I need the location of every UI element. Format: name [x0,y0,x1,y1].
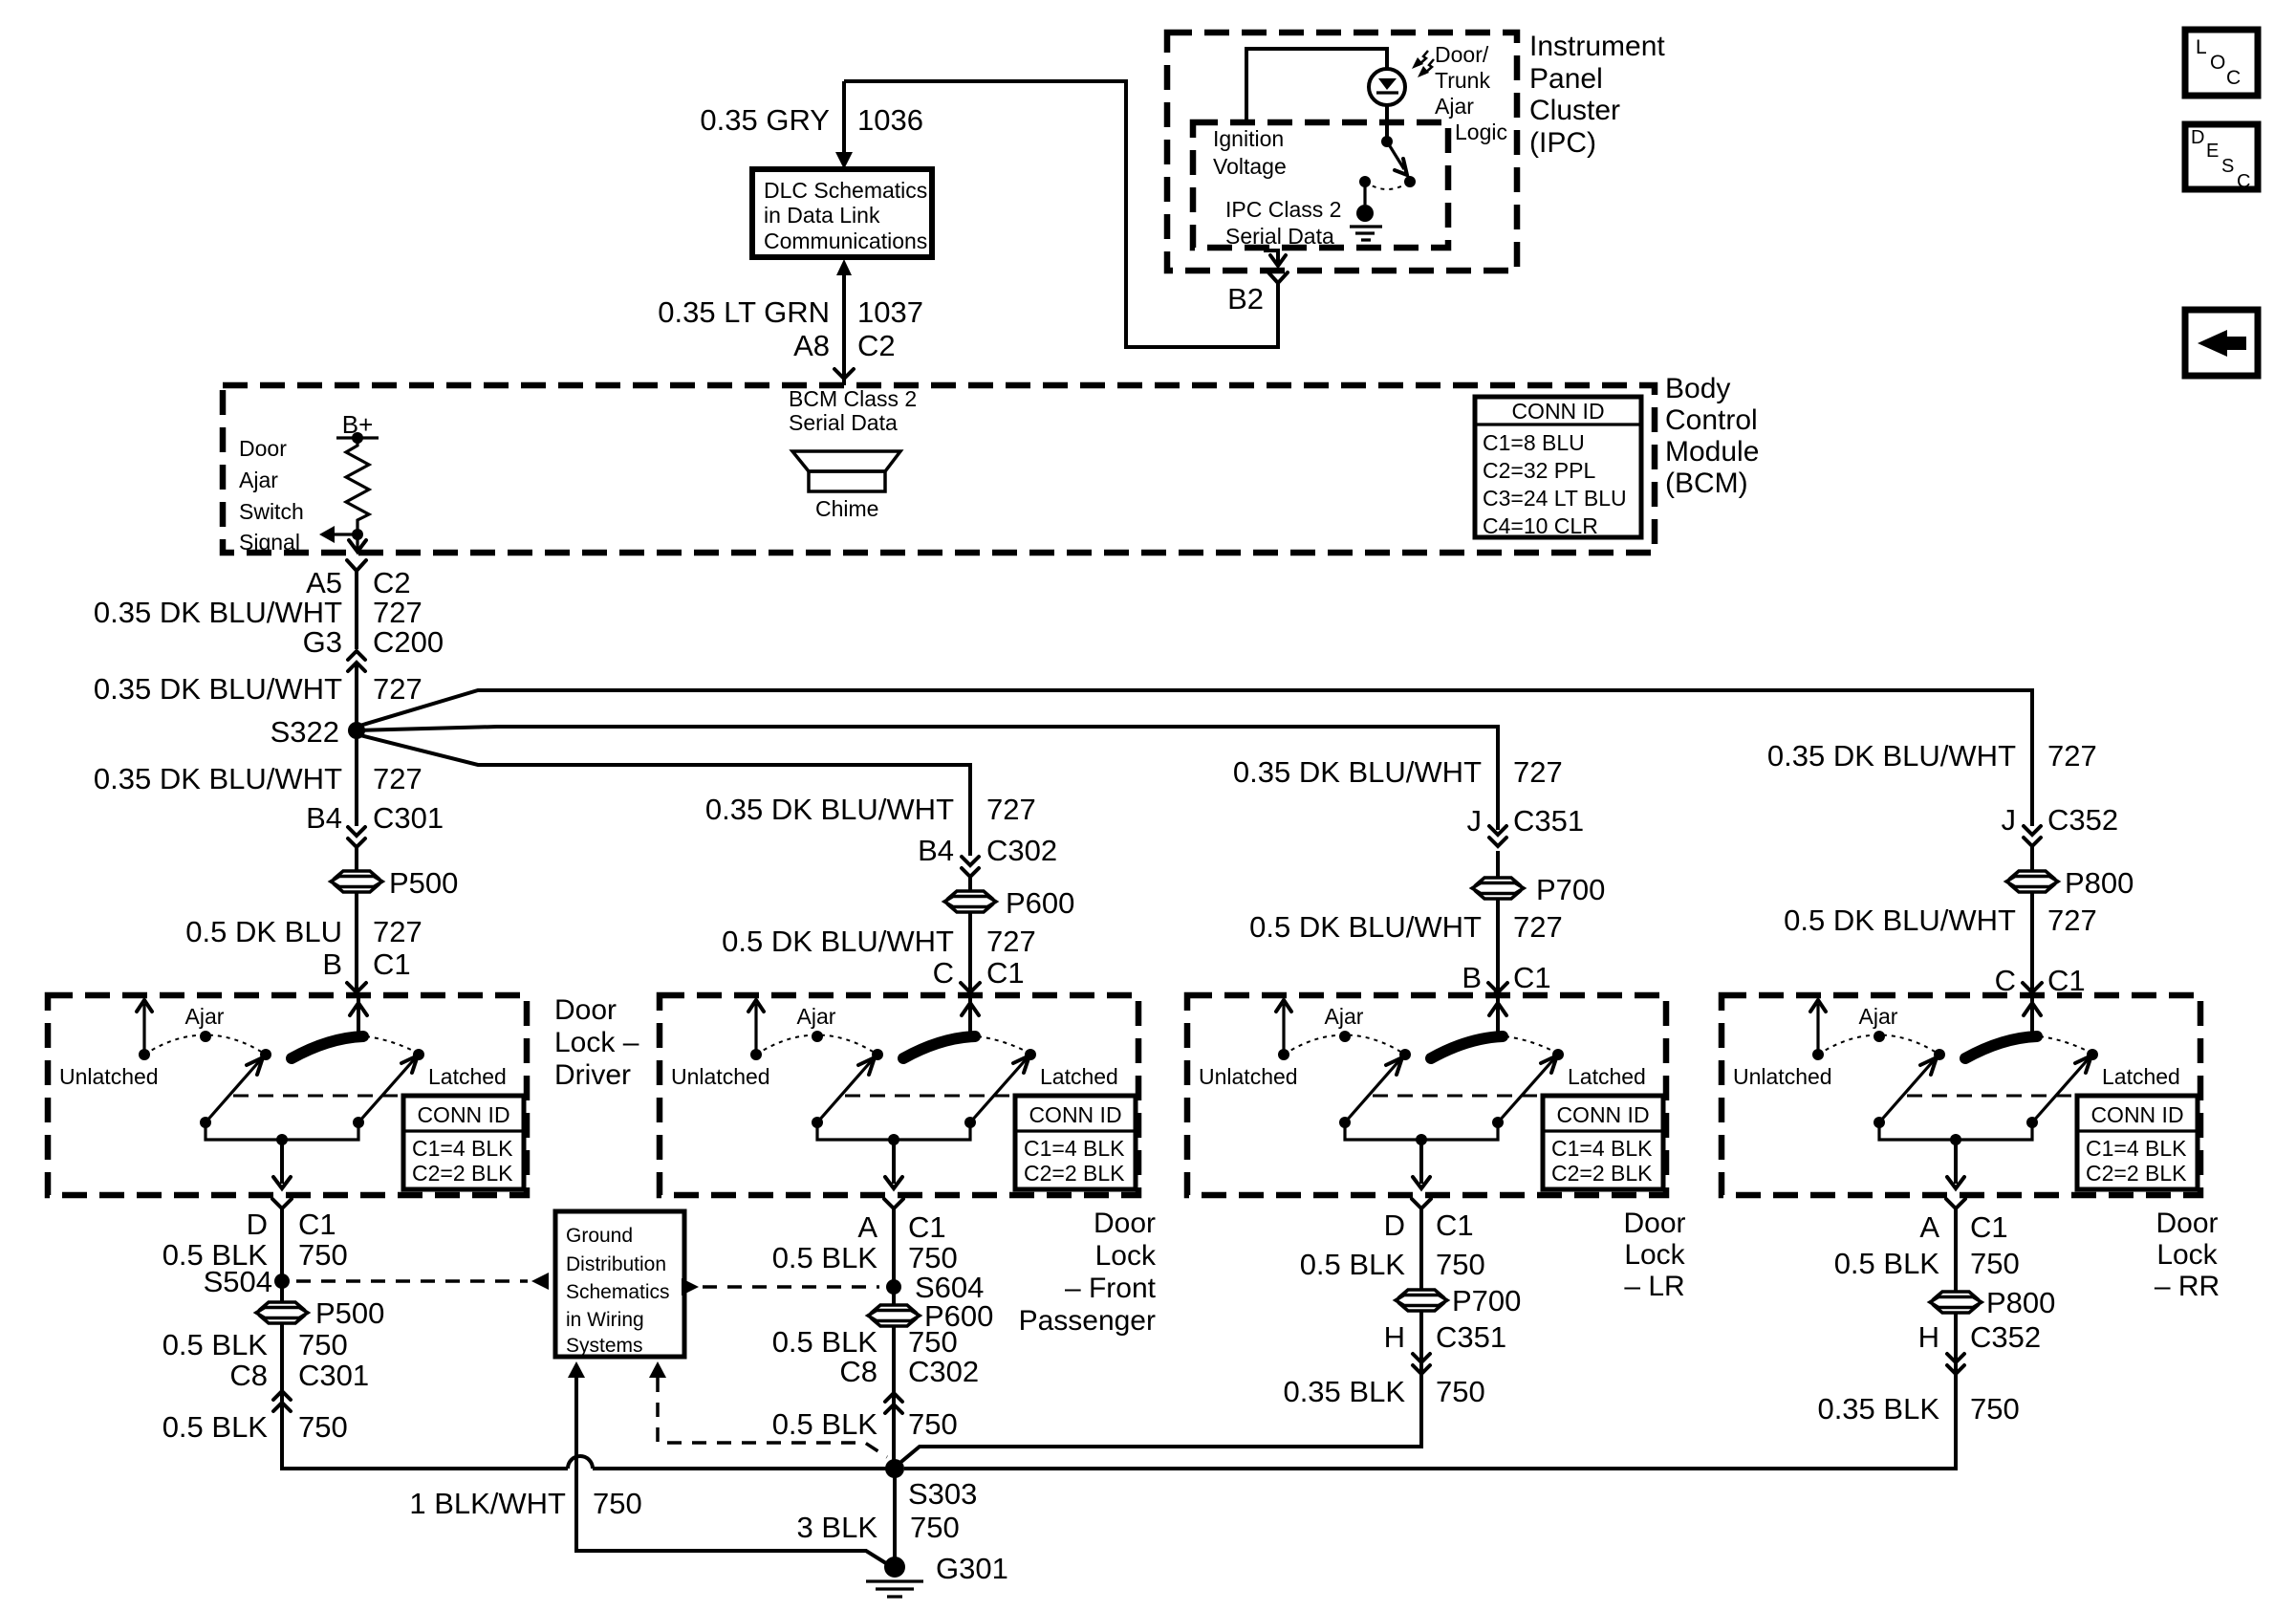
svg-text:1 BLK/WHT: 1 BLK/WHT [409,1487,566,1520]
svg-text:0.35 DK BLU/WHT: 0.35 DK BLU/WHT [705,793,954,826]
svg-text:P700: P700 [1452,1284,1521,1317]
svg-text:750: 750 [910,1511,960,1544]
svg-text:0.35 DK BLU/WHT: 0.35 DK BLU/WHT [94,672,342,706]
svg-text:C2: C2 [857,329,896,362]
svg-text:Body: Body [1665,373,1730,404]
svg-text:Door/: Door/ [1435,42,1489,67]
svg-text:S: S [2221,156,2234,177]
svg-text:750: 750 [298,1238,348,1272]
svg-text:P500: P500 [315,1296,384,1330]
svg-text:C1: C1 [908,1210,946,1244]
svg-text:C1: C1 [298,1208,336,1241]
svg-text:Communications: Communications [764,229,927,253]
svg-text:3 BLK: 3 BLK [797,1511,878,1544]
svg-text:Lock: Lock [1095,1240,1157,1272]
svg-text:C351: C351 [1513,804,1584,838]
svg-text:0.35 DK BLU/WHT: 0.35 DK BLU/WHT [1233,755,1482,789]
svg-text:0.5 BLK: 0.5 BLK [162,1328,269,1361]
svg-text:B4: B4 [306,801,342,835]
svg-text:Voltage: Voltage [1213,154,1287,179]
svg-text:H: H [1384,1320,1405,1354]
svg-text:S303: S303 [908,1477,977,1511]
svg-text:Signal: Signal [239,530,300,555]
svg-text:1036: 1036 [857,103,923,137]
svg-text:Serial Data: Serial Data [789,410,898,435]
svg-text:D: D [1384,1208,1405,1242]
svg-text:750: 750 [908,1325,958,1359]
svg-text:P800: P800 [1986,1286,2055,1319]
svg-text:0.35 BLK: 0.35 BLK [1817,1392,1939,1426]
svg-text:P700: P700 [1536,873,1605,906]
svg-text:727: 727 [1513,910,1563,944]
svg-text:C3=24 LT BLU: C3=24 LT BLU [1483,486,1627,511]
svg-text:C301: C301 [373,801,444,835]
svg-text:750: 750 [298,1328,348,1361]
svg-text:L: L [2196,36,2207,58]
svg-text:0.35 BLK: 0.35 BLK [1283,1375,1405,1408]
svg-text:Control: Control [1665,404,1758,436]
svg-text:A8: A8 [793,329,830,362]
svg-text:Instrument: Instrument [1529,31,1665,62]
svg-text:0.35 DK BLU/WHT: 0.35 DK BLU/WHT [94,596,342,629]
svg-text:C301: C301 [298,1359,369,1392]
svg-text:1037: 1037 [857,295,923,329]
svg-text:750: 750 [1970,1247,2020,1280]
svg-text:J: J [2002,803,2017,837]
svg-text:Door: Door [554,994,617,1026]
svg-text:CONN ID: CONN ID [1511,399,1604,424]
svg-text:C1: C1 [1513,961,1551,994]
svg-text:H: H [1918,1320,1939,1354]
svg-text:Switch: Switch [239,499,304,524]
svg-text:P600: P600 [1006,886,1074,920]
svg-text:– LR: – LR [1624,1271,1684,1302]
svg-text:O: O [2210,52,2225,74]
svg-text:Ajar: Ajar [1435,94,1474,119]
svg-text:0.35 DK BLU/WHT: 0.35 DK BLU/WHT [1767,739,2016,773]
svg-text:G301: G301 [936,1552,1008,1585]
svg-text:C2: C2 [373,566,411,599]
svg-text:(BCM): (BCM) [1665,468,1748,499]
svg-text:Logic: Logic [1455,120,1507,144]
svg-text:0.35 DK BLU/WHT: 0.35 DK BLU/WHT [94,762,342,795]
svg-text:727: 727 [373,596,422,629]
svg-text:Chime: Chime [815,496,878,521]
svg-text:0.5 DK BLU/WHT: 0.5 DK BLU/WHT [1784,903,2016,937]
svg-text:C4=10 CLR: C4=10 CLR [1483,513,1598,538]
svg-text:0.5 BLK: 0.5 BLK [772,1325,878,1359]
svg-text:750: 750 [1436,1248,1485,1281]
svg-text:727: 727 [986,925,1036,958]
svg-text:in Data Link: in Data Link [764,203,880,228]
svg-text:Serial Data: Serial Data [1225,224,1334,249]
svg-text:D: D [247,1208,268,1241]
svg-text:C351: C351 [1436,1320,1506,1354]
svg-text:Ground: Ground [566,1225,633,1247]
svg-text:Door: Door [1623,1208,1685,1239]
svg-text:0.5 BLK: 0.5 BLK [1300,1248,1406,1281]
svg-text:IPC Class 2: IPC Class 2 [1225,197,1341,222]
svg-text:Cluster: Cluster [1529,95,1620,126]
svg-text:C302: C302 [986,834,1057,867]
svg-text:C352: C352 [2047,803,2118,837]
svg-text:C8: C8 [839,1355,877,1388]
svg-text:Lock: Lock [1624,1239,1685,1271]
svg-text:Door: Door [239,436,287,461]
svg-text:C1: C1 [986,956,1025,990]
svg-text:0.5 DK BLU/WHT: 0.5 DK BLU/WHT [722,925,954,958]
svg-text:Lock: Lock [2156,1239,2218,1271]
svg-text:C2=32 PPL: C2=32 PPL [1483,458,1595,483]
svg-text:750: 750 [908,1407,958,1441]
svg-text:Panel: Panel [1529,63,1603,95]
svg-text:P800: P800 [2065,866,2134,900]
svg-text:727: 727 [2047,739,2097,773]
svg-text:D: D [2191,127,2204,148]
svg-text:G3: G3 [303,625,342,659]
svg-text:0.5 DK BLU: 0.5 DK BLU [185,915,342,948]
svg-text:in Wiring: in Wiring [566,1309,644,1331]
svg-text:S322: S322 [271,715,339,749]
svg-text:727: 727 [373,762,422,795]
svg-text:750: 750 [593,1487,642,1520]
svg-text:(IPC): (IPC) [1529,127,1596,159]
svg-text:P500: P500 [389,866,458,900]
svg-text:C8: C8 [229,1359,268,1392]
svg-text:0.35 GRY: 0.35 GRY [700,103,830,137]
svg-text:Schematics: Schematics [566,1281,670,1303]
svg-text:0.5 BLK: 0.5 BLK [1834,1247,1940,1280]
svg-text:– Front: – Front [1065,1273,1157,1304]
svg-text:A: A [857,1210,877,1244]
svg-text:DLC Schematics: DLC Schematics [764,178,927,203]
svg-text:727: 727 [373,672,422,706]
svg-text:A: A [1919,1210,1939,1244]
svg-text:Systems: Systems [566,1335,643,1357]
svg-text:S504: S504 [204,1265,272,1298]
svg-text:750: 750 [1436,1375,1485,1408]
svg-text:0.5 BLK: 0.5 BLK [162,1410,269,1444]
svg-text:727: 727 [1513,755,1563,789]
svg-text:750: 750 [908,1241,958,1274]
svg-text:Ajar: Ajar [239,468,278,492]
svg-text:BCM Class 2: BCM Class 2 [789,386,917,411]
svg-text:Trunk: Trunk [1435,68,1490,93]
svg-text:– RR: – RR [2155,1271,2220,1302]
svg-text:C1: C1 [1436,1208,1474,1242]
svg-text:C: C [2226,67,2241,89]
svg-text:C1: C1 [373,947,411,981]
svg-text:0.5 BLK: 0.5 BLK [772,1407,878,1441]
svg-text:B: B [322,947,342,981]
svg-text:C1: C1 [1970,1210,2008,1244]
svg-text:727: 727 [986,793,1036,826]
svg-text:C302: C302 [908,1355,979,1388]
svg-text:727: 727 [373,915,422,948]
svg-text:0.35 LT GRN: 0.35 LT GRN [658,295,830,329]
svg-text:J: J [1467,804,1483,838]
svg-text:727: 727 [2047,903,2097,937]
svg-text:Door: Door [2155,1208,2218,1239]
svg-text:0.5 DK BLU/WHT: 0.5 DK BLU/WHT [1249,910,1482,944]
svg-text:Distribution: Distribution [566,1253,666,1275]
svg-text:B4: B4 [918,834,954,867]
svg-text:C352: C352 [1970,1320,2041,1354]
svg-text:Ignition: Ignition [1213,126,1284,151]
svg-text:A5: A5 [306,566,342,599]
svg-text:E: E [2206,141,2219,162]
svg-text:Lock –: Lock – [554,1027,639,1058]
svg-text:750: 750 [298,1410,348,1444]
svg-text:C: C [2237,171,2250,192]
svg-text:C1=8 BLU: C1=8 BLU [1483,430,1585,455]
svg-text:Driver: Driver [554,1059,631,1091]
svg-text:750: 750 [1970,1392,2020,1426]
svg-text:C: C [933,956,954,990]
svg-text:Module: Module [1665,436,1759,468]
svg-text:Passenger: Passenger [1019,1305,1156,1337]
svg-text:0.5 BLK: 0.5 BLK [772,1241,878,1274]
svg-text:B2: B2 [1227,282,1264,316]
svg-text:B: B [1462,961,1482,994]
svg-text:Door: Door [1094,1208,1156,1239]
svg-text:C200: C200 [373,625,444,659]
